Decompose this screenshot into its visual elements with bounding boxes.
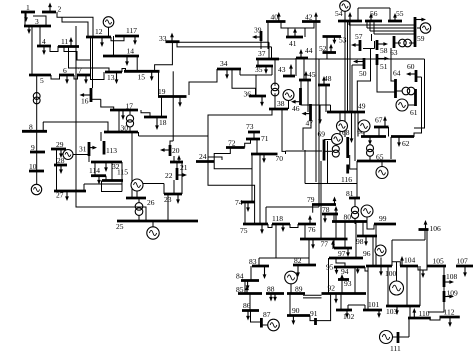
svg-text:69: 69 <box>318 130 326 139</box>
svg-text:15: 15 <box>138 73 146 82</box>
svg-text:64: 64 <box>393 69 401 78</box>
svg-text:45: 45 <box>308 70 316 79</box>
svg-text:118: 118 <box>272 214 283 223</box>
svg-text:98: 98 <box>356 237 364 246</box>
svg-text:57: 57 <box>355 32 363 41</box>
svg-text:22: 22 <box>165 171 173 180</box>
svg-text:114: 114 <box>89 166 100 175</box>
svg-text:65: 65 <box>376 153 384 162</box>
svg-text:49: 49 <box>358 102 366 111</box>
svg-text:14: 14 <box>127 47 135 56</box>
svg-text:88: 88 <box>267 285 275 294</box>
svg-text:46: 46 <box>292 104 300 113</box>
svg-text:75: 75 <box>240 226 248 235</box>
svg-text:33: 33 <box>159 34 167 43</box>
svg-text:29: 29 <box>56 140 64 149</box>
svg-text:21: 21 <box>180 163 188 172</box>
svg-text:10: 10 <box>29 162 37 171</box>
svg-text:89: 89 <box>295 285 303 294</box>
svg-text:42: 42 <box>305 13 313 22</box>
svg-text:94: 94 <box>341 267 349 276</box>
svg-text:116: 116 <box>341 175 352 184</box>
svg-text:37: 37 <box>258 49 266 58</box>
svg-text:58: 58 <box>380 46 388 55</box>
svg-text:61: 61 <box>410 108 418 117</box>
svg-text:31: 31 <box>79 145 87 154</box>
svg-text:99: 99 <box>379 214 387 223</box>
svg-text:112: 112 <box>444 308 455 317</box>
svg-text:59: 59 <box>417 34 425 43</box>
svg-text:13: 13 <box>107 73 115 82</box>
svg-text:39: 39 <box>254 26 262 35</box>
svg-text:50: 50 <box>359 69 367 78</box>
svg-text:79: 79 <box>307 195 315 204</box>
svg-text:6: 6 <box>63 66 67 75</box>
svg-text:17: 17 <box>126 102 134 111</box>
svg-text:51: 51 <box>380 62 388 71</box>
svg-text:5: 5 <box>40 76 44 85</box>
svg-text:70: 70 <box>276 154 284 163</box>
svg-text:35: 35 <box>255 65 263 74</box>
svg-text:81: 81 <box>346 189 354 198</box>
svg-text:100: 100 <box>385 269 397 278</box>
svg-text:7: 7 <box>78 66 82 75</box>
svg-text:72: 72 <box>228 139 236 148</box>
svg-text:9: 9 <box>31 143 35 152</box>
svg-text:12: 12 <box>95 27 103 36</box>
svg-text:24: 24 <box>199 152 207 161</box>
svg-text:76: 76 <box>308 225 316 234</box>
svg-text:53: 53 <box>339 36 347 45</box>
svg-text:107: 107 <box>457 257 469 266</box>
svg-text:73: 73 <box>246 122 254 131</box>
svg-text:104: 104 <box>404 256 416 265</box>
svg-text:34: 34 <box>220 59 228 68</box>
svg-text:16: 16 <box>81 97 89 106</box>
svg-text:71: 71 <box>261 134 269 143</box>
svg-text:91: 91 <box>310 309 318 318</box>
svg-text:55: 55 <box>396 9 404 18</box>
svg-text:106: 106 <box>430 224 442 233</box>
svg-text:90: 90 <box>292 306 300 315</box>
svg-text:110: 110 <box>419 309 430 318</box>
svg-text:82: 82 <box>294 256 302 265</box>
svg-text:67: 67 <box>375 116 383 125</box>
svg-text:2: 2 <box>58 5 62 14</box>
svg-text:84: 84 <box>236 272 244 281</box>
svg-text:87: 87 <box>263 310 271 319</box>
svg-text:63: 63 <box>390 48 398 57</box>
svg-text:36: 36 <box>244 90 252 99</box>
svg-text:40: 40 <box>271 13 279 22</box>
svg-text:111: 111 <box>390 344 401 353</box>
svg-text:48: 48 <box>324 74 332 83</box>
svg-text:93: 93 <box>344 279 352 288</box>
svg-text:96: 96 <box>363 249 371 258</box>
svg-text:52: 52 <box>319 44 327 53</box>
svg-text:11: 11 <box>61 37 68 46</box>
svg-text:78: 78 <box>322 205 330 214</box>
svg-text:19: 19 <box>158 87 166 96</box>
svg-text:113: 113 <box>106 146 117 155</box>
svg-text:8: 8 <box>29 122 33 131</box>
svg-text:101: 101 <box>368 300 380 309</box>
svg-text:97: 97 <box>338 249 346 258</box>
svg-text:4: 4 <box>42 37 46 46</box>
svg-text:25: 25 <box>116 222 124 231</box>
svg-text:95: 95 <box>326 263 334 272</box>
svg-text:1: 1 <box>26 3 30 12</box>
svg-text:23: 23 <box>164 195 172 204</box>
svg-text:85: 85 <box>236 285 244 294</box>
svg-text:86: 86 <box>243 301 251 310</box>
svg-text:108: 108 <box>446 272 458 281</box>
svg-text:43: 43 <box>278 65 286 74</box>
svg-text:83: 83 <box>249 257 257 266</box>
svg-text:60: 60 <box>407 62 415 71</box>
svg-text:77: 77 <box>321 240 329 249</box>
svg-text:47: 47 <box>306 119 314 128</box>
svg-text:62: 62 <box>402 139 410 148</box>
svg-text:41: 41 <box>289 39 297 48</box>
svg-text:115: 115 <box>117 168 128 177</box>
svg-text:38: 38 <box>277 99 285 108</box>
svg-text:117: 117 <box>126 26 137 35</box>
svg-text:44: 44 <box>305 46 313 55</box>
svg-text:74: 74 <box>235 198 243 207</box>
svg-text:102: 102 <box>343 312 355 321</box>
svg-text:27: 27 <box>56 191 64 200</box>
svg-text:80: 80 <box>344 213 352 222</box>
svg-text:18: 18 <box>159 118 167 127</box>
svg-text:20: 20 <box>172 146 180 155</box>
svg-text:105: 105 <box>433 257 445 266</box>
svg-text:3: 3 <box>35 17 39 26</box>
svg-text:26: 26 <box>147 198 155 207</box>
